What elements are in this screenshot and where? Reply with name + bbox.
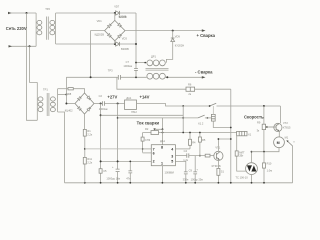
node pin2 rail x117 (117, 160, 119, 162)
wire cathode bus vertical x136 (135, 13, 137, 63)
wire switch to relay contact box (205, 117, 212, 119)
node mains N (29, 45, 31, 47)
switch K1.2 blade (198, 115, 205, 118)
resistor R12 MLT (235, 150, 245, 157)
svg-text:С5: С5 (103, 169, 107, 173)
triac VS1 (235, 163, 257, 180)
resistor R on x100 (99, 169, 102, 174)
svg-text:6: 6 (153, 152, 155, 156)
wire rail y77 (66, 76, 146, 78)
wire pin5 (175, 161, 185, 172)
bridge VD2 (65, 92, 94, 114)
svg-text:R5: R5 (202, 138, 206, 142)
svg-text:1: 1 (161, 162, 163, 166)
capacitor C2 series (102, 101, 104, 105)
svg-text:С7: С7 (126, 60, 130, 64)
wire right column x231 (230, 89, 232, 183)
svg-text:R1: R1 (87, 129, 91, 133)
wire triac top (251, 152, 253, 163)
svg-text:R2: R2 (145, 127, 149, 131)
wire x162 to pin8 (162, 129, 164, 144)
diode VD7 (114, 5, 127, 20)
svg-text:ТР2: ТР2 (45, 7, 50, 11)
IC DA1 timer box (151, 139, 175, 175)
wire bridge bottom corner down (114, 41, 116, 44)
transformer TP2 (36, 7, 56, 46)
motor M1 (274, 136, 289, 148)
node pin2 rail x100 (100, 160, 102, 162)
node wiper (162, 128, 164, 130)
svg-text:ТР1: ТР1 (43, 88, 48, 92)
relay contact K1 box (211, 106, 215, 121)
capacitor C9 (183, 168, 193, 182)
wire feedback tap down (117, 77, 186, 89)
wire divider x84 (84, 114, 86, 183)
node +27 pre-cap (100, 103, 102, 105)
motor adjust arrow (286, 140, 295, 146)
wire mains bottom (9, 45, 37, 47)
resistor R4 (189, 133, 197, 149)
wire TP1 sec bottom to ground rail (58, 112, 65, 183)
resistor R5 vertical (198, 133, 205, 156)
capacitor C6 x130 (126, 161, 132, 182)
node sec mid (65, 94, 67, 96)
svg-text:R9: R9 (257, 120, 261, 124)
node x183 top (182, 105, 184, 107)
wire contact box down (213, 121, 231, 127)
svg-text:С2: С2 (99, 94, 103, 98)
svg-text:100ду 25в: 100ду 25в (191, 177, 204, 181)
wire TP2 secondary top to VD1 (56, 12, 116, 14)
svg-text:330н: 330н (183, 177, 189, 181)
resistor R8 emitter (217, 168, 225, 175)
wire VT1 collector up (218, 139, 230, 151)
svg-text:В200В: В200В (121, 47, 129, 51)
svg-text:R11: R11 (87, 157, 92, 161)
wire x117 vertical (117, 104, 119, 183)
fuse FU1 (68, 88, 73, 90)
capacitor C8 on bus x136 (123, 60, 137, 78)
wire ground rail bottom (65, 182, 293, 184)
wire choke bottom right to -svarka (165, 76, 204, 78)
svg-text:Ток сварки: Ток сварки (137, 120, 160, 125)
svg-text:Скорость: Скорость (244, 114, 264, 119)
transformer TP1 (37, 82, 57, 120)
svg-text:VD3: VD3 (122, 37, 128, 41)
svg-text:1000ду 16в: 1000ду 16в (106, 177, 120, 181)
node rail2 start (117, 117, 119, 119)
wire VT2 emitter to motor (278, 131, 280, 137)
wire bridge top corner up (114, 13, 116, 20)
capacitor C7 series (108, 68, 121, 79)
wire x100 vertical (100, 104, 102, 183)
node +27V (117, 103, 119, 105)
node rail x136 (135, 76, 137, 78)
wire VT1 emitter down (217, 160, 219, 182)
svg-text:5: 5 (171, 160, 173, 164)
wire TP1 sec top fuse branch (58, 88, 68, 90)
svg-text:КЦ402: КЦ402 (65, 109, 73, 113)
svg-text:7812: 7812 (131, 110, 137, 114)
wire rail 106 right (217, 105, 281, 107)
wire mains L down to TP1 (27, 13, 38, 120)
wire R3 branch (142, 133, 144, 153)
wire regulator out (137, 104, 210, 107)
node rail2 x183 (182, 117, 184, 119)
svg-text:- Сварка: - Сварка (195, 70, 213, 75)
svg-text:ТС 106-10: ТС 106-10 (235, 175, 248, 179)
svg-text:В200В: В200В (119, 14, 127, 18)
svg-text:К1.2: К1.2 (198, 121, 204, 125)
svg-text:Сеть 220V: Сеть 220V (6, 26, 27, 31)
inductor DR1 top winding (147, 60, 165, 66)
wire bridge VD2 right lead (94, 103, 102, 105)
relay K1 coil box (237, 131, 252, 136)
node bridge left (65, 103, 67, 105)
svg-text:М1: М1 (285, 136, 289, 140)
wire triac bottom (251, 175, 253, 183)
svg-text:КТ815: КТ815 (283, 125, 291, 129)
wire mains top (8, 12, 36, 14)
svg-text:+ Сварка: + Сварка (197, 33, 216, 38)
svg-text:VD9: VD9 (175, 34, 181, 38)
svg-text:4: 4 (171, 148, 173, 152)
svg-text:+27V: +27V (107, 94, 117, 99)
svg-text:3: 3 (171, 155, 173, 159)
wire pin1 to ground (161, 166, 163, 183)
wire R7 to right column (195, 88, 231, 90)
node VS tap (172, 30, 174, 32)
wire VT2 collector (279, 106, 281, 123)
wire mains N down to TP1 (30, 46, 38, 82)
thyristor VD9 КУ202Н (166, 31, 184, 63)
svg-text:R4: R4 (192, 141, 196, 145)
transistor VT1 KT315 (212, 145, 223, 168)
transistor VT2 KT815 (269, 121, 291, 131)
node cathode bus bottom (135, 43, 137, 45)
svg-text:КУ202Н: КУ202Н (175, 44, 185, 48)
wire C4 to R6 (189, 155, 205, 157)
wire x66 vertical (65, 77, 67, 103)
wire diode VD7 to node (120, 12, 136, 14)
svg-text:КД202В: КД202В (95, 33, 105, 37)
svg-text:2: 2 (153, 160, 155, 164)
svg-text:М: М (277, 141, 280, 145)
resistor R10 (263, 152, 273, 183)
wire bridge VD2 left lead (66, 103, 75, 105)
diode VD3 (116, 37, 129, 51)
switch K1.1 blade (210, 103, 217, 106)
wire motor bottom (252, 148, 280, 152)
node -svarka (166, 76, 168, 78)
capacitor C5 electrolytic x117 (106, 166, 120, 180)
svg-text:8: 8 (161, 146, 163, 150)
svg-text:VD8: VD8 (66, 92, 72, 96)
svg-text:1000мк: 1000мк (123, 64, 133, 68)
resistor R3 (141, 137, 151, 142)
wire choke top lead (136, 62, 147, 64)
svg-text:1006ВИ: 1006ВИ (165, 170, 175, 174)
wire diode VD3 to node (120, 43, 136, 45)
wire fuse to bridge top (73, 89, 84, 93)
svg-text:VT2: VT2 (283, 121, 288, 125)
node speed tap (263, 105, 265, 107)
resistor R6 base (205, 154, 210, 157)
resistor R1 (83, 129, 93, 136)
wire x183 down (182, 115, 184, 132)
node choke top left (135, 62, 137, 64)
wire rail3 y132 (143, 132, 237, 134)
node rail x91 (90, 76, 92, 78)
svg-text:VD1: VD1 (97, 19, 103, 23)
svg-text:47н: 47н (126, 177, 131, 181)
wire pin3 (175, 155, 186, 157)
svg-text:ДА1: ДА1 (126, 96, 131, 100)
wire pin7 (143, 148, 152, 150)
svg-text:ДА1: ДА1 (160, 139, 165, 143)
svg-text:КТ315Б: КТ315Б (212, 164, 221, 168)
wire rail2 y118 (118, 117, 198, 119)
potentiometer R2 (145, 118, 163, 135)
voltage regulator DA box (125, 96, 138, 114)
svg-text:СП3: СП3 (145, 138, 151, 142)
inductor DR1 bottom winding (147, 73, 165, 79)
wire tach vertical (292, 146, 294, 183)
inductor DR1 core (146, 69, 169, 71)
wire cap to regulator (104, 103, 124, 105)
svg-text:С4: С4 (184, 149, 188, 153)
node mains L (26, 12, 28, 14)
resistor R11 (83, 157, 93, 164)
node pin7 (142, 148, 144, 150)
node rail1 start (100, 114, 102, 116)
svg-text:R6: R6 (188, 83, 192, 87)
svg-text:С9: С9 (189, 168, 193, 172)
svg-text:ДР1: ДР1 (151, 55, 156, 59)
wire pin4 (175, 148, 190, 150)
bridge VD1 (95, 14, 127, 40)
resistor R7 (186, 83, 195, 96)
capacitor C10 electrolytic (191, 156, 204, 183)
svg-text:VD7: VD7 (114, 5, 120, 9)
svg-text:+14V: +14V (140, 94, 150, 99)
wire pin2 rail (101, 160, 152, 162)
wire +svarka rail (125, 30, 204, 32)
wire TP1 sec mid lead (58, 94, 67, 96)
wire TP2 secondary bottom to VD1 (56, 43, 116, 45)
wire pin6 (143, 152, 152, 154)
potentiometer R9 (257, 106, 269, 152)
wire relay to MLT resistor (237, 136, 247, 171)
wire rail1 y115 (101, 106, 184, 115)
wire R6 to VT1 (210, 155, 215, 157)
svg-text:R10: R10 (267, 162, 272, 166)
wire bridge left corner to x91 (91, 31, 105, 78)
ground rail node dots (84, 182, 86, 184)
node TP2 bottom junction (114, 43, 116, 45)
node divider mid (84, 148, 86, 150)
svg-text:1,0м: 1,0м (267, 168, 273, 172)
wire divider tap (85, 148, 143, 150)
node TP2 top junction (114, 12, 116, 14)
svg-text:ТР3: ТР3 (108, 68, 113, 72)
capacitor C4 series (183, 149, 189, 162)
node after switch (207, 117, 209, 119)
